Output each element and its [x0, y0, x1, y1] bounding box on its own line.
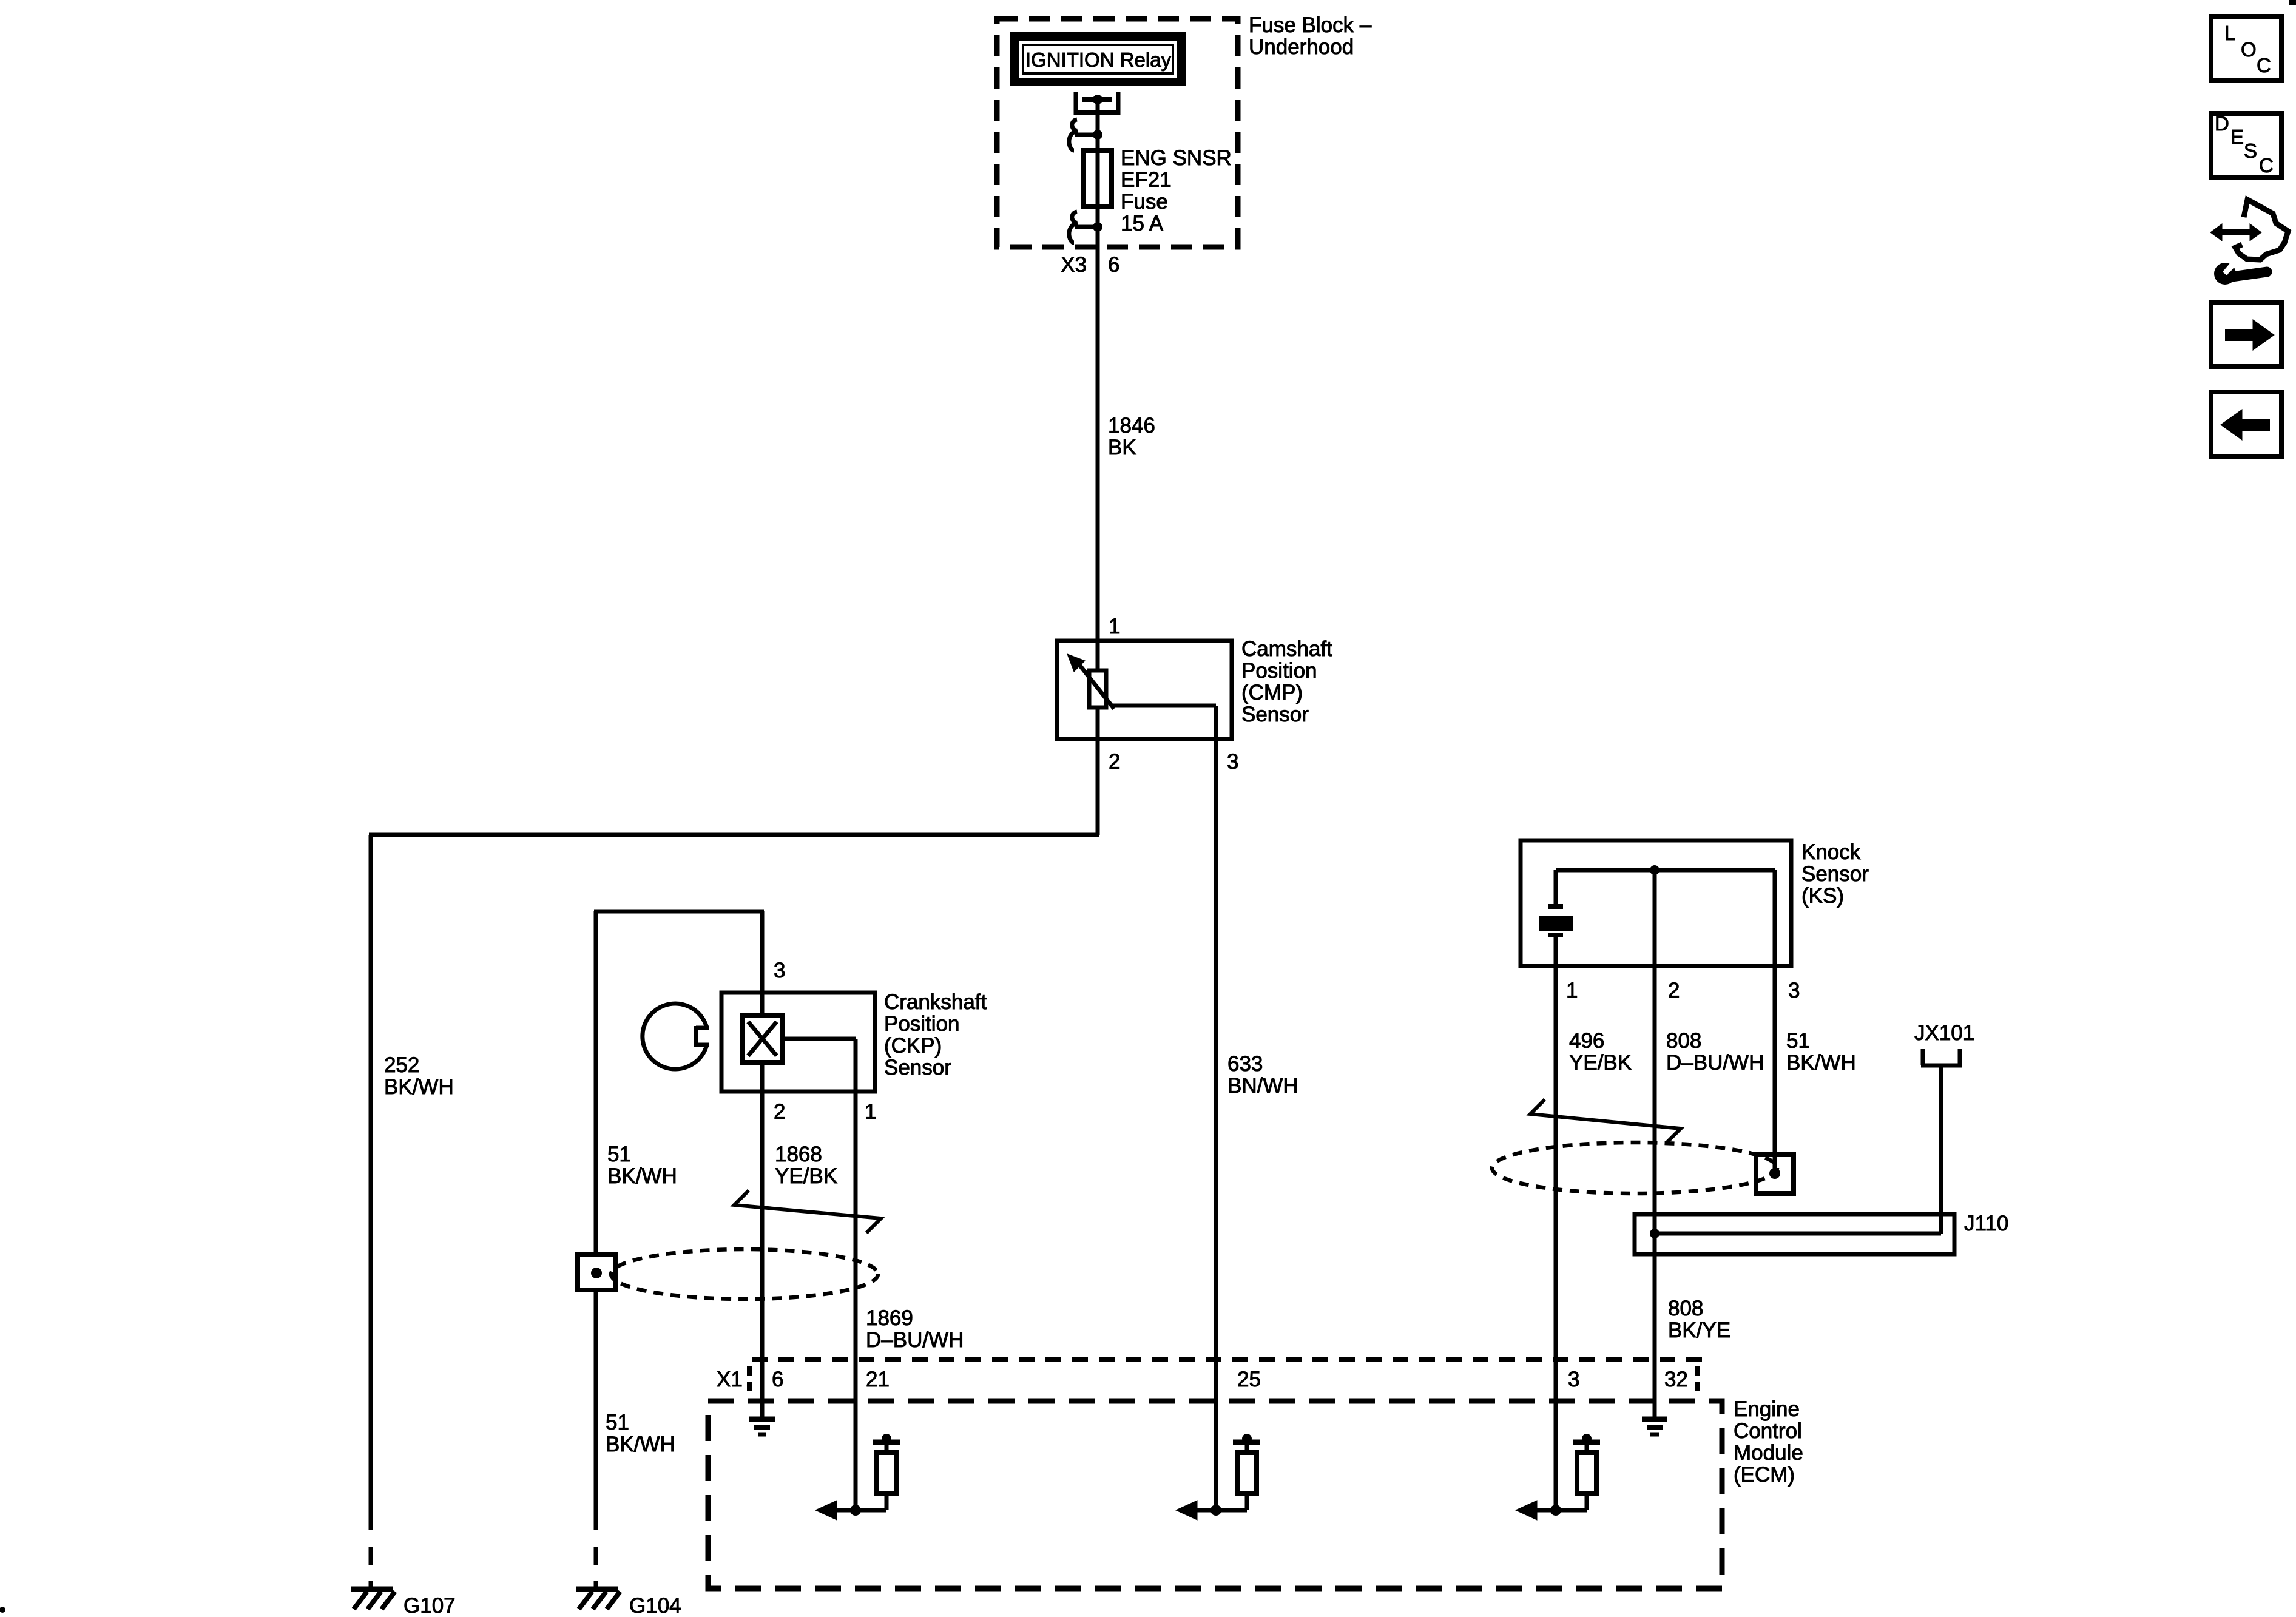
- svg-text:Engine: Engine: [1734, 1397, 1800, 1421]
- svg-text:6: 6: [1108, 253, 1119, 277]
- wire 51 BK/WH: KS pin 3 to inline connector: [1773, 966, 1777, 1173]
- pin 2 label (CKP): [774, 1100, 785, 1124]
- svg-text:YE/BK: YE/BK: [775, 1164, 837, 1188]
- pin 1 label (CKP): [865, 1100, 876, 1124]
- label ENG SNSR EF21 Fuse 15 A: [1121, 146, 1232, 235]
- connector X3 pin 6 labels: [1061, 253, 1119, 277]
- svg-text:E: E: [2230, 126, 2244, 148]
- wire 808 D-BU/WH: KS pin 2 down through J110: [1653, 966, 1657, 1360]
- label Knock Sensor (KS): [1801, 840, 1869, 908]
- svg-text:S: S: [2244, 140, 2257, 162]
- label 808 BK/YE: [1668, 1297, 1730, 1342]
- harness ellipse (KS, dashed): [1492, 1143, 1777, 1193]
- svg-text:Knock: Knock: [1801, 840, 1861, 864]
- svg-text:C: C: [2259, 154, 2274, 177]
- svg-text:Module: Module: [1734, 1441, 1803, 1465]
- svg-text:D–BU/WH: D–BU/WH: [866, 1328, 964, 1352]
- label 51 BK/WH (upper): [607, 1143, 677, 1188]
- connector X1 row (fine dashed strip): [749, 1360, 1703, 1393]
- splice block J110: [1635, 1212, 2008, 1254]
- svg-text:X3: X3: [1061, 253, 1087, 277]
- ECM input pin 3: arrow and pull-up resistor: [1516, 1360, 1600, 1520]
- wire 1869 D-BU/WH: CKP pin 1 to ECM pin 21: [854, 1092, 858, 1360]
- svg-text:808: 808: [1668, 1297, 1703, 1320]
- svg-text:Fuse Block –: Fuse Block –: [1249, 13, 1372, 37]
- wire 633 BN/WH: CMP pin 3 to ECM pin 25: [1214, 739, 1218, 1360]
- piezo element (KS): [1539, 870, 1573, 966]
- svg-text:G107: G107: [403, 1594, 456, 1617]
- wire 51 BK/WH: CKP pin 3 up/left/down: [594, 911, 764, 1255]
- clip terminal upper with junction: [1069, 120, 1102, 150]
- pin 3 label (CKP): [774, 959, 785, 982]
- label Crankshaft Position (CKP) Sensor: [884, 990, 987, 1079]
- inline connector on 51 BK/WH KS (box with dot): [1756, 1155, 1794, 1193]
- page artifact top right corner: [2289, 0, 2296, 5]
- wire pin 32 to internal ground: [1653, 1360, 1657, 1419]
- svg-text:1869: 1869: [866, 1306, 913, 1330]
- sensor: Knock Sensor (KS) box: [1521, 840, 1791, 966]
- svg-text:D: D: [2215, 112, 2229, 135]
- svg-text:Crankshaft: Crankshaft: [884, 990, 987, 1014]
- svg-text:(KS): (KS): [1801, 884, 1844, 908]
- label 252 BK/WH: [384, 1053, 454, 1099]
- wire pin 6 to internal ground: [760, 1360, 765, 1419]
- wire 252 BK/WH: CMP pin 2 down, left and down to G107: [369, 707, 1099, 1512]
- label wire 1846 BK: [1108, 414, 1155, 459]
- svg-text:32: 32: [1664, 1368, 1688, 1391]
- svg-text:15 A: 15 A: [1121, 212, 1164, 235]
- wire 496 YE/BK: KS pin 1 to ECM pin 3: [1554, 966, 1558, 1360]
- svg-text:6: 6: [772, 1368, 783, 1391]
- connector X1 label: [717, 1368, 743, 1391]
- pin labels ECM 6 21 25 3 32: [772, 1368, 1688, 1391]
- svg-text:C: C: [2257, 54, 2271, 76]
- svg-text:2: 2: [774, 1100, 785, 1124]
- svg-text:1: 1: [1109, 615, 1120, 638]
- wire: KS bus to pin 3: [1773, 870, 1777, 966]
- pin 2 label (CMP): [1109, 750, 1120, 774]
- svg-text:YE/BK: YE/BK: [1569, 1051, 1632, 1075]
- svg-text:51: 51: [1786, 1029, 1810, 1053]
- svg-text:BK/WH: BK/WH: [384, 1075, 454, 1099]
- svg-text:3: 3: [774, 959, 785, 982]
- label 496 YE/BK: [1569, 1029, 1632, 1075]
- ECM input pin 21: arrow and pull-up resistor: [815, 1360, 900, 1520]
- wire dashed drop to ground G107: [369, 1512, 373, 1589]
- icon DESC box: [2211, 112, 2281, 178]
- svg-text:BN/WH: BN/WH: [1227, 1074, 1298, 1098]
- label 1868 YE/BK: [775, 1143, 837, 1188]
- hall element (boxed X) inside CKP: [742, 1015, 783, 1062]
- svg-text:3: 3: [1568, 1368, 1579, 1391]
- inline connector on 51 BK/WH (box with dot): [578, 1255, 616, 1290]
- svg-text:2: 2: [1109, 750, 1120, 774]
- relay K: IGNITION Relay: [1010, 32, 1186, 86]
- svg-text:BK/WH: BK/WH: [606, 1433, 675, 1456]
- wire: CKP element to pin 2: [760, 1062, 765, 1092]
- wire: CMP element to pin 2: [1096, 707, 1100, 739]
- svg-text:633: 633: [1227, 1052, 1263, 1076]
- junction dot (KS pin 2 tap): [1650, 865, 1660, 875]
- label 51 BK/WH (lower): [606, 1411, 675, 1456]
- svg-text:JX101: JX101: [1914, 1021, 1974, 1045]
- label Fuse Block - Underhood: [1249, 13, 1372, 59]
- svg-text:J110: J110: [1964, 1212, 2008, 1235]
- ground G104 (chassis): [576, 1589, 681, 1617]
- wire: JX101 stem to J110: [1939, 1065, 1943, 1234]
- wire: KS internal bus: [1556, 868, 1775, 873]
- pin 1 label (CMP): [1109, 615, 1120, 638]
- module: Engine Control Module (ECM) dashed box: [708, 1401, 1722, 1588]
- svg-text:Control: Control: [1734, 1419, 1802, 1443]
- svg-text:Underhood: Underhood: [1249, 35, 1354, 59]
- variable reluctance element (resistor with arrow) inside CMP: [1067, 654, 1114, 709]
- sensor: Camshaft Position (CMP) Sensor box: [1057, 641, 1232, 739]
- wire: KS bus to pin 2: [1653, 870, 1657, 966]
- wire dashed drop to ground G104: [594, 1512, 598, 1589]
- pin 3 label (CMP): [1227, 750, 1238, 774]
- svg-text:Sensor: Sensor: [1801, 862, 1869, 886]
- pin labels KS 1 2 3: [1566, 979, 1800, 1002]
- clip terminal lower with junction: [1069, 212, 1102, 243]
- svg-text:ENG SNSR: ENG SNSR: [1121, 146, 1232, 170]
- icon hand with wrench and double arrow: [2210, 200, 2288, 285]
- label Engine Control Module (ECM): [1734, 1397, 1803, 1487]
- svg-text:BK: BK: [1108, 436, 1136, 459]
- svg-text:Sensor: Sensor: [1241, 703, 1309, 726]
- sensor: Crankshaft Position (CKP) Sensor box: [721, 993, 875, 1092]
- icon forward arrow box: [2211, 302, 2281, 366]
- wire: CKP element to pin 1: [783, 1039, 856, 1092]
- page artifact bottom left: [0, 1607, 5, 1613]
- reluctor wheel (notched circle) left of CKP: [643, 1004, 709, 1069]
- svg-text:G104: G104: [629, 1594, 681, 1617]
- svg-text:51: 51: [606, 1411, 629, 1434]
- ground G107 (chassis): [351, 1589, 456, 1617]
- svg-text:IGNITION Relay: IGNITION Relay: [1025, 49, 1172, 71]
- label Camshaft Position (CMP) Sensor: [1241, 637, 1332, 726]
- wire: CMP internal to pin 3: [1112, 706, 1216, 739]
- svg-text:2: 2: [1668, 979, 1680, 1002]
- wire: relay output down through fuse block (x=1809): [1096, 100, 1100, 670]
- ECM input pin 25: arrow and pull-up resistor: [1176, 1360, 1260, 1520]
- label 1869 D-BU/WH: [866, 1306, 964, 1352]
- svg-text:51: 51: [607, 1143, 631, 1166]
- svg-text:EF21: EF21: [1121, 168, 1172, 192]
- svg-text:25: 25: [1237, 1368, 1261, 1391]
- icon back arrow box: [2211, 392, 2281, 456]
- svg-text:1868: 1868: [775, 1143, 822, 1166]
- ground symbol (ECM pin 6): [749, 1419, 775, 1434]
- svg-text:1846: 1846: [1108, 414, 1155, 437]
- svg-text:L: L: [2224, 22, 2235, 44]
- label 633 BN/WH: [1227, 1052, 1298, 1098]
- wire 51 BK/WH to G104: [594, 1290, 598, 1512]
- svg-text:Position: Position: [1241, 659, 1317, 683]
- junction JX101 (bracket): [1914, 1021, 1974, 1065]
- svg-text:X1: X1: [717, 1368, 743, 1391]
- wire 1868 YE/BK: CKP pin 2 to ECM pin 6: [760, 1092, 765, 1360]
- svg-text:3: 3: [1227, 750, 1238, 774]
- svg-text:O: O: [2241, 38, 2257, 61]
- twisted pair marker (CKP wires): [734, 1190, 881, 1233]
- svg-text:Position: Position: [884, 1012, 960, 1036]
- svg-text:D–BU/WH: D–BU/WH: [1666, 1051, 1764, 1075]
- svg-text:1: 1: [865, 1100, 876, 1124]
- twisted pair marker (KS wires): [1530, 1099, 1681, 1143]
- fuse block enclosure: Fuse Block - Underhood (dashed box): [997, 19, 1238, 247]
- svg-text:BK/WH: BK/WH: [607, 1164, 677, 1188]
- svg-text:1: 1: [1566, 979, 1578, 1002]
- svg-text:21: 21: [866, 1368, 890, 1391]
- svg-text:(CMP): (CMP): [1241, 681, 1303, 704]
- label 808 D-BU/WH: [1666, 1029, 1764, 1075]
- svg-text:3: 3: [1788, 979, 1800, 1002]
- svg-text:BK/YE: BK/YE: [1668, 1318, 1730, 1342]
- wire: J110 internal splice run with junction: [1650, 1229, 1941, 1238]
- ground symbol (ECM pin 32): [1642, 1419, 1667, 1434]
- svg-text:(ECM): (ECM): [1734, 1463, 1795, 1487]
- svg-text:808: 808: [1666, 1029, 1701, 1053]
- relay socket terminal (cup) with junction dot: [1074, 92, 1120, 115]
- harness ellipse (CKP, dashed): [611, 1249, 878, 1299]
- svg-text:BK/WH: BK/WH: [1786, 1051, 1856, 1075]
- svg-text:Fuse: Fuse: [1121, 190, 1168, 214]
- svg-text:252: 252: [384, 1053, 419, 1077]
- svg-text:Camshaft: Camshaft: [1241, 637, 1332, 661]
- label 51 BK/WH (KS): [1786, 1029, 1856, 1075]
- fuse EF21: ENG SNSR 15 A: [1084, 150, 1112, 206]
- svg-text:Sensor: Sensor: [884, 1056, 951, 1079]
- icon LOC box: [2211, 16, 2281, 81]
- svg-text:496: 496: [1569, 1029, 1604, 1053]
- svg-text:(CKP): (CKP): [884, 1034, 942, 1058]
